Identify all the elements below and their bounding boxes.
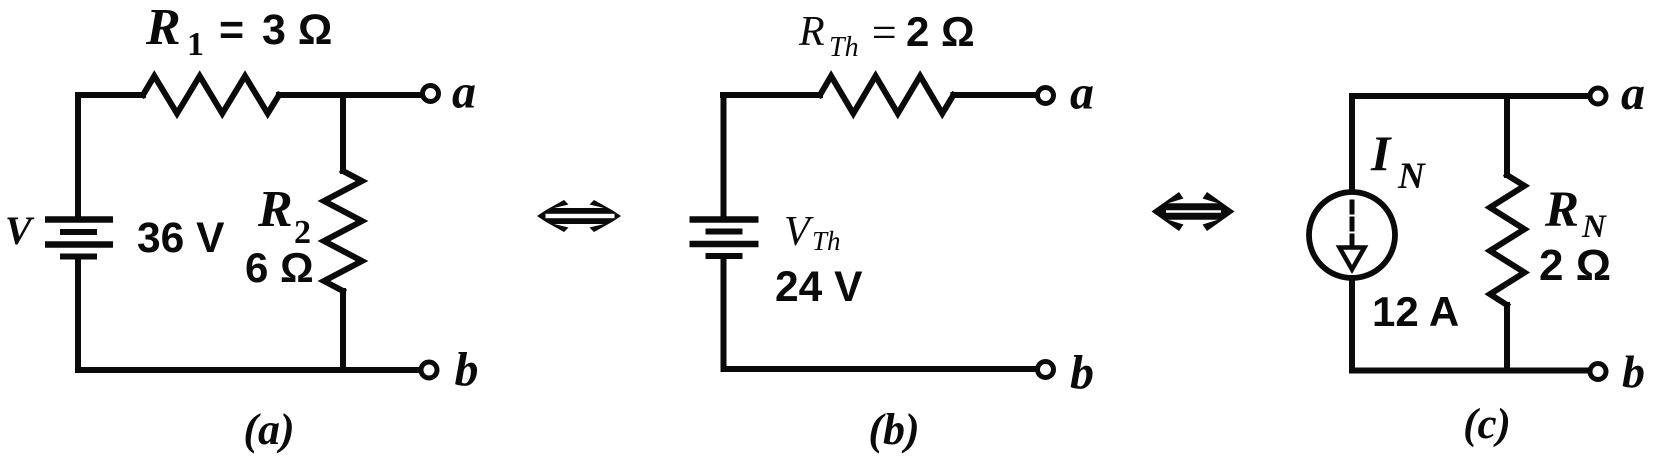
current source IN circle [1309, 192, 1395, 278]
svg-text:36 V: 36 V [137, 215, 225, 262]
svg-text:I: I [1370, 125, 1392, 181]
label R1 = 3 ohm [145, 0, 332, 63]
svg-text:(b): (b) [868, 405, 919, 454]
equivalence arrow between (b) and (c) [1152, 192, 1235, 231]
svg-text:b: b [1070, 346, 1094, 399]
svg-text:a: a [452, 66, 476, 119]
wire: circuit (c) left vertical upper [1349, 96, 1355, 190]
battery V (circuit a) [45, 220, 113, 257]
svg-text:=: = [219, 6, 244, 54]
wire: circuit (c) RN top stub [1504, 96, 1510, 175]
equivalence arrow between (a) and (b) [537, 200, 621, 232]
terminal b (circuit c) [1590, 364, 1606, 380]
current source IN dashed arrow [1340, 202, 1365, 270]
label VTh [784, 209, 841, 256]
svg-text:V: V [784, 209, 814, 255]
svg-text:R: R [257, 181, 293, 238]
resistor RN [1490, 175, 1525, 305]
wire: circuit (c) top rail [1352, 93, 1589, 99]
wire: circuit (a) bottom-left L [78, 259, 422, 370]
svg-text:R: R [1544, 182, 1579, 238]
svg-text:b: b [1622, 346, 1645, 397]
svg-text:=: = [869, 8, 899, 57]
terminal a (circuit c) [1590, 88, 1606, 104]
resistor RTh [820, 76, 953, 114]
svg-text:3 Ω: 3 Ω [262, 6, 332, 54]
label RN [1544, 182, 1607, 245]
wire: circuit (b) bottom-left L [724, 258, 1038, 369]
svg-text:V: V [5, 208, 35, 253]
terminal b (circuit b) [1038, 362, 1054, 378]
wire: circuit (b) left vertical [721, 95, 727, 216]
svg-text:R: R [798, 9, 825, 55]
svg-text:24 V: 24 V [775, 264, 863, 311]
battery VTh (circuit b) [690, 220, 759, 257]
svg-text:N: N [1397, 156, 1426, 197]
svg-text:Th: Th [829, 32, 859, 63]
label RTh = 2 ohm [798, 8, 975, 63]
svg-text:b: b [455, 343, 479, 396]
wire: circuit (a) top-right segment to terminal a [279, 92, 422, 98]
svg-text:(c): (c) [1463, 401, 1511, 448]
wire: circuit (a) R2 bottom stub [340, 291, 346, 370]
label R2 [257, 181, 311, 251]
resistor R1 [143, 76, 279, 114]
terminal a (circuit b) [1038, 88, 1054, 104]
resistor R2 [324, 171, 362, 291]
wire: circuit (c) bottom rail [1352, 368, 1590, 374]
wire: circuit (c) left vertical lower [1349, 278, 1355, 371]
svg-text:N: N [1581, 209, 1607, 245]
svg-text:a: a [1070, 67, 1094, 120]
terminal a (circuit a) [423, 86, 439, 102]
wire: circuit (a) top-left segment [78, 92, 143, 98]
wire: circuit (b) top-right segment to terminal a [953, 92, 1037, 98]
label IN [1370, 125, 1426, 197]
svg-text:(a): (a) [243, 405, 294, 454]
wire: circuit (c) RN bottom stub [1504, 305, 1510, 371]
svg-text:1: 1 [187, 26, 204, 63]
terminal b (circuit a) [421, 362, 437, 378]
svg-text:6 Ω: 6 Ω [245, 244, 314, 291]
svg-text:2 Ω: 2 Ω [1539, 241, 1611, 290]
svg-text:R: R [145, 0, 181, 56]
wire: circuit (b) top-left segment [723, 92, 820, 98]
svg-text:a: a [1621, 67, 1645, 120]
svg-text:Th: Th [812, 226, 841, 256]
wire: circuit (a) R2 top stub [340, 95, 346, 171]
svg-text:2 Ω: 2 Ω [906, 8, 975, 55]
wire: circuit (a) left vertical [75, 95, 81, 217]
svg-text:12 A: 12 A [1372, 288, 1459, 335]
